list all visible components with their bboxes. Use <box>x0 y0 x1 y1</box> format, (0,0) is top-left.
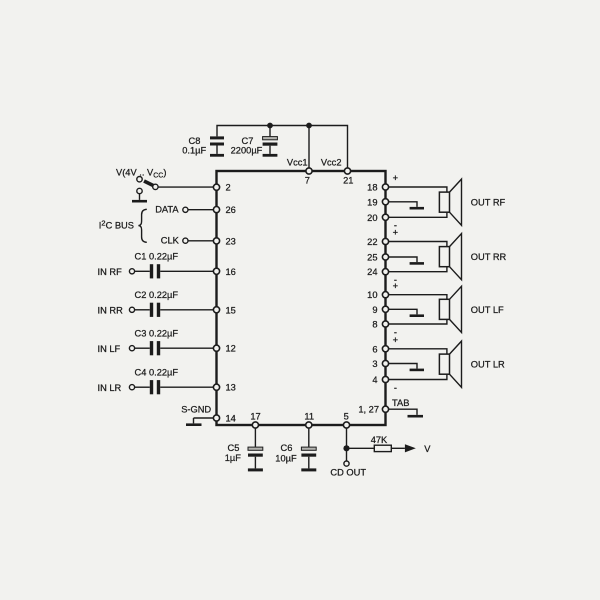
svg-text:10: 10 <box>367 290 377 300</box>
pin 22 <box>367 237 388 247</box>
svg-text:1, 27: 1, 27 <box>358 405 379 415</box>
speaker OUT RR <box>439 234 461 280</box>
pin 19 <box>367 197 388 207</box>
svg-text:25: 25 <box>367 253 377 263</box>
svg-text:IN LF: IN LF <box>98 344 121 354</box>
ground bar RR <box>410 262 424 265</box>
wire pin 25 to ground <box>389 257 417 262</box>
svg-text:24: 24 <box>367 267 377 277</box>
wire pin 3 to ground <box>389 364 417 369</box>
svg-text:23: 23 <box>226 236 236 246</box>
svg-text:47K: 47K <box>371 435 388 445</box>
pin 5 <box>343 412 349 429</box>
svg-text:26: 26 <box>226 205 236 215</box>
svg-text:1µF: 1µF <box>225 453 242 463</box>
capacitor C5 <box>225 428 263 468</box>
svg-text:8: 8 <box>372 320 377 330</box>
pin 21 <box>343 168 353 186</box>
svg-text:C5: C5 <box>228 443 240 453</box>
svg-text:3: 3 <box>372 359 377 369</box>
svg-text:2200µF: 2200µF <box>231 146 263 156</box>
wire pin 22 to speaker <box>389 242 447 249</box>
wire pin 9 to ground <box>389 309 417 314</box>
wire pin 6 to speaker <box>389 349 447 356</box>
svg-text:IN RR: IN RR <box>98 305 124 315</box>
wire pin 19 to ground <box>389 202 417 207</box>
svg-text:+: + <box>393 173 398 183</box>
svg-text:OUT LF: OUT LF <box>471 305 504 315</box>
wire pin 5 down <box>346 428 348 461</box>
svg-text:S-GND: S-GND <box>181 404 211 414</box>
pin 15 <box>213 305 235 315</box>
svg-text:6: 6 <box>372 344 377 354</box>
ground bar TAB <box>408 415 424 418</box>
arrow to V <box>405 444 416 452</box>
pin 17 <box>250 412 260 429</box>
pin 3 <box>372 359 388 369</box>
svg-text:IN RF: IN RF <box>98 267 123 277</box>
ground bar of C7 <box>263 154 278 157</box>
svg-text:+: + <box>393 228 398 238</box>
pin 25 <box>367 253 388 263</box>
supply rail wire <box>217 126 348 168</box>
pin 10 <box>367 290 388 300</box>
CD OUT terminal <box>330 461 366 477</box>
svg-text:7: 7 <box>305 176 310 186</box>
svg-text:15: 15 <box>226 305 236 315</box>
svg-text:21: 21 <box>343 176 353 186</box>
pin 26 <box>213 205 235 215</box>
pin 2 <box>213 183 230 193</box>
svg-text:OUT RF: OUT RF <box>471 198 506 208</box>
ground bar RF <box>410 207 424 210</box>
pin 11 <box>304 412 314 429</box>
svg-text:C1 0.22µF: C1 0.22µF <box>135 251 179 261</box>
svg-text:C6: C6 <box>281 443 293 453</box>
switch S1 <box>137 177 158 200</box>
pin 13 <box>213 383 235 393</box>
svg-text:18: 18 <box>367 183 377 193</box>
S-GND <box>181 404 213 423</box>
wire TAB to ground <box>389 409 417 415</box>
junction dot at Vcc1 drop <box>306 123 312 129</box>
svg-text:C7: C7 <box>242 136 254 146</box>
svg-text:IN LR: IN LR <box>98 383 122 393</box>
svg-text:16: 16 <box>226 267 236 277</box>
svg-text:V: V <box>424 444 431 454</box>
svg-text:4: 4 <box>372 375 377 385</box>
resistor R1 47K <box>371 435 392 451</box>
svg-text:C8: C8 <box>189 136 201 146</box>
wire to resistor <box>349 447 374 449</box>
input IN RF / capacitor C1 <box>98 251 214 278</box>
svg-text:13: 13 <box>226 383 236 393</box>
svg-text:TAB: TAB <box>392 398 409 408</box>
ground bar S-GND <box>186 423 202 426</box>
input IN RR / capacitor C2 <box>98 290 214 317</box>
svg-text:C4 0.22µF: C4 0.22µF <box>135 367 179 377</box>
wire: drop to pin 7 <box>308 126 310 168</box>
pin 14 <box>213 413 235 423</box>
junction dot CD OUT node <box>343 445 349 451</box>
IC U1 body <box>217 171 386 425</box>
svg-text:C2 0.22µF: C2 0.22µF <box>135 290 179 300</box>
svg-text:C3 0.22µF: C3 0.22µF <box>135 328 179 338</box>
pin 12 <box>213 344 235 354</box>
wire pin 18 to speaker <box>389 187 447 194</box>
pin 23 <box>213 236 235 246</box>
capacitor C8 <box>182 136 224 156</box>
svg-text:12: 12 <box>226 344 236 354</box>
svg-text:CD OUT: CD OUT <box>330 467 366 477</box>
svg-text:17: 17 <box>250 412 260 422</box>
junction dot at C7 <box>267 123 273 129</box>
pin 6 <box>372 344 388 354</box>
wire pin 8 to speaker <box>389 317 447 324</box>
pin 4 <box>372 375 388 385</box>
ground bar of C8 <box>210 154 224 157</box>
svg-text:14: 14 <box>226 413 236 423</box>
speaker OUT LR <box>439 341 461 387</box>
pin 20 <box>367 213 388 223</box>
input IN LR / capacitor C4 <box>98 367 214 394</box>
svg-text:CLK: CLK <box>161 236 180 246</box>
pin 18 <box>367 183 388 193</box>
wire pin 10 to speaker <box>389 295 447 302</box>
svg-text:11: 11 <box>304 412 314 422</box>
wire pin 20 to speaker <box>389 210 447 217</box>
pin 7 <box>305 168 312 186</box>
svg-text:-: - <box>394 383 397 393</box>
capacitor C6 <box>275 428 316 468</box>
speaker OUT RF <box>439 179 461 225</box>
brace <box>138 209 146 242</box>
speaker OUT LF <box>439 286 461 332</box>
ground bar of C6 <box>301 468 316 471</box>
pin 24 <box>367 267 388 277</box>
ground bar of C5 <box>248 468 263 471</box>
CLK terminal <box>161 236 188 246</box>
pin 1,27 TAB <box>358 398 409 415</box>
svg-text:20: 20 <box>367 213 377 223</box>
svg-text:Vcc1: Vcc1 <box>287 158 308 168</box>
wire switch to pin 2 <box>158 186 213 188</box>
svg-text:Vcc2: Vcc2 <box>321 158 342 168</box>
ground bar LR <box>410 369 424 372</box>
wire CLK to pin 23 <box>188 240 213 242</box>
svg-text:+: + <box>393 281 398 291</box>
svg-text:DATA: DATA <box>155 204 179 214</box>
svg-text:0.1µF: 0.1µF <box>182 146 206 156</box>
svg-text:+: + <box>393 335 398 345</box>
wire resistor to arrow <box>391 447 405 449</box>
input IN LF / capacitor C3 <box>98 328 214 355</box>
svg-text:5: 5 <box>344 412 349 422</box>
pin 9 <box>372 305 388 315</box>
capacitor C7 (electrolytic) <box>231 126 278 156</box>
wire pin 24 to speaker <box>389 265 447 272</box>
svg-text:OUT RR: OUT RR <box>471 252 507 262</box>
svg-text:OUT LR: OUT LR <box>471 360 505 370</box>
svg-text:10µF: 10µF <box>275 453 297 463</box>
wire pin 4 to speaker <box>389 372 447 379</box>
ground bar LF <box>410 314 424 317</box>
svg-text:9: 9 <box>372 305 377 315</box>
ground bar of switch <box>132 200 147 203</box>
DATA terminal <box>155 204 188 214</box>
svg-text:19: 19 <box>367 197 377 207</box>
pin 8 <box>372 320 388 330</box>
svg-text:22: 22 <box>367 237 377 247</box>
wire DATA to pin 26 <box>188 209 213 211</box>
svg-text:2: 2 <box>226 183 231 193</box>
pin 16 <box>213 267 235 277</box>
